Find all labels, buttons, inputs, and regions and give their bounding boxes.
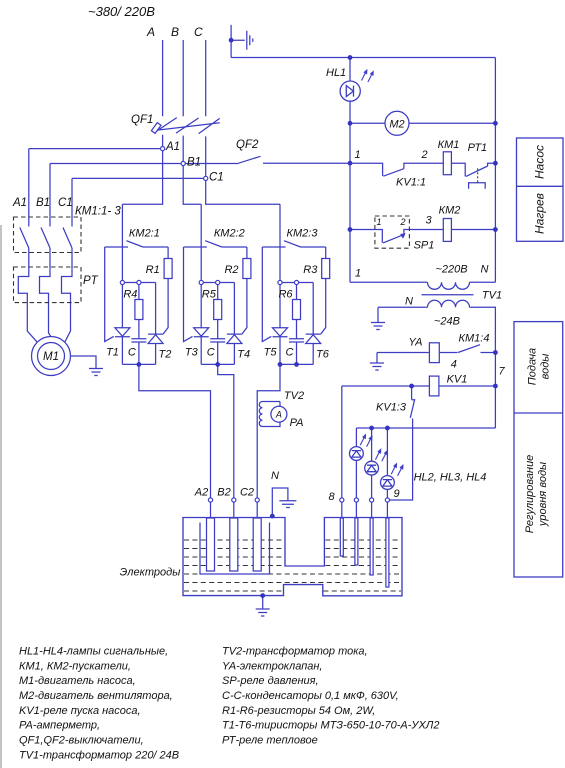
svg-text:КМ2:3: КМ2:3 xyxy=(287,228,319,240)
svg-text:Регулирование: Регулирование xyxy=(524,455,536,534)
svg-text:КМ2: КМ2 xyxy=(439,205,461,217)
svg-text:С: С xyxy=(286,347,294,359)
svg-text:T1-T6-тиристоры МТЗ-650-10-70-: T1-T6-тиристоры МТЗ-650-10-70-А-УХЛ2 xyxy=(222,720,439,732)
svg-text:РТ-реле тепловое: РТ-реле тепловое xyxy=(222,735,318,747)
svg-text:TV2-трансформатор тока,: TV2-трансформатор тока, xyxy=(222,646,368,658)
svg-text:Т3: Т3 xyxy=(185,347,199,359)
svg-text:8: 8 xyxy=(328,491,335,503)
svg-text:Т6: Т6 xyxy=(316,349,330,361)
svg-text:Т1: Т1 xyxy=(106,347,119,359)
svg-text:КМ1:4: КМ1:4 xyxy=(459,333,490,345)
svg-text:TV2: TV2 xyxy=(284,390,304,402)
svg-text:4: 4 xyxy=(451,359,457,371)
svg-text:1: 1 xyxy=(354,149,360,161)
svg-text:QF1: QF1 xyxy=(131,114,153,126)
svg-text:уровня воды: уровня воды xyxy=(537,462,549,527)
svg-text:A1: A1 xyxy=(165,141,180,153)
svg-text:R1: R1 xyxy=(146,264,160,276)
svg-text:YA-электроклапан,: YA-электроклапан, xyxy=(222,660,322,672)
svg-text:B2: B2 xyxy=(217,487,230,499)
svg-text:R5: R5 xyxy=(202,289,217,301)
svg-text:3: 3 xyxy=(425,215,432,227)
svg-text:С: С xyxy=(207,347,215,359)
svg-text:КМ1, КМ2-пускатели,: КМ1, КМ2-пускатели, xyxy=(19,660,131,672)
svg-text:QF2: QF2 xyxy=(236,139,259,151)
svg-text:SP-реле давления,: SP-реле давления, xyxy=(222,675,319,687)
svg-text:КМ1: КМ1 xyxy=(438,139,460,151)
svg-text:КМ1:1- 3: КМ1:1- 3 xyxy=(75,206,121,218)
svg-text:С: С xyxy=(128,347,136,359)
svg-text:A: A xyxy=(275,410,282,420)
svg-text:KV1:3: KV1:3 xyxy=(376,402,407,414)
svg-text:воды: воды xyxy=(540,354,552,380)
svg-text:9: 9 xyxy=(393,488,399,500)
svg-text:C2: C2 xyxy=(240,487,254,499)
svg-text:~380/ 220В: ~380/ 220В xyxy=(88,4,155,19)
svg-text:2: 2 xyxy=(420,149,427,161)
svg-text:М2: М2 xyxy=(389,118,404,130)
svg-text:N: N xyxy=(481,264,489,276)
svg-text:SP1: SP1 xyxy=(414,240,435,252)
svg-text:A: A xyxy=(146,25,155,39)
svg-text:B1: B1 xyxy=(187,157,201,169)
svg-text:QF1,QF2-выключатели,: QF1,QF2-выключатели, xyxy=(19,735,144,747)
svg-text:R4: R4 xyxy=(123,289,137,301)
svg-text:~220В: ~220В xyxy=(435,264,467,276)
svg-text:KV1-реле пуска насоса,: KV1-реле пуска насоса, xyxy=(19,705,141,717)
svg-text:YA: YA xyxy=(408,337,422,349)
svg-text:Нагрев: Нагрев xyxy=(533,193,547,234)
svg-text:1: 1 xyxy=(376,217,381,227)
svg-text:HL2, HL3, HL4: HL2, HL3, HL4 xyxy=(414,472,487,484)
svg-text:A1: A1 xyxy=(12,197,27,209)
svg-text:N: N xyxy=(271,470,279,482)
svg-text:KV1:1: KV1:1 xyxy=(396,177,426,189)
svg-text:PT: PT xyxy=(83,275,99,287)
svg-text:Насос: Насос xyxy=(533,145,547,179)
svg-text:C-C-конденсаторы 0,1 мкФ, 630V: C-C-конденсаторы 0,1 мкФ, 630V, xyxy=(222,690,399,702)
svg-text:Т5: Т5 xyxy=(264,347,278,359)
svg-text:TV1: TV1 xyxy=(482,290,502,302)
svg-text:R6: R6 xyxy=(278,289,293,301)
svg-text:KV1: KV1 xyxy=(447,374,468,386)
svg-text:М2-двигатель вентилятора,: М2-двигатель вентилятора, xyxy=(19,690,173,702)
svg-text:КМ2:1: КМ2:1 xyxy=(129,228,160,240)
svg-text:C1: C1 xyxy=(58,197,73,209)
svg-text:КМ2:2: КМ2:2 xyxy=(214,228,245,240)
svg-text:N: N xyxy=(405,296,413,308)
svg-text:HL1: HL1 xyxy=(326,67,346,79)
svg-text:PA-амперметр,: PA-амперметр, xyxy=(19,720,100,732)
svg-text:7: 7 xyxy=(498,366,505,378)
svg-text:Т2: Т2 xyxy=(158,349,171,361)
svg-text:B1: B1 xyxy=(36,197,50,209)
svg-text:C: C xyxy=(194,25,203,39)
svg-text:2: 2 xyxy=(399,217,405,227)
svg-text:~24В: ~24В xyxy=(434,316,460,328)
svg-text:РТ1: РТ1 xyxy=(468,142,488,154)
svg-text:HL1-HL4-лампы сигнальные,: HL1-HL4-лампы сигнальные, xyxy=(19,646,168,658)
svg-text:A2: A2 xyxy=(194,487,208,499)
svg-text:R3: R3 xyxy=(303,264,318,276)
svg-text:Подача: Подача xyxy=(527,348,539,385)
svg-text:Электроды: Электроды xyxy=(120,567,181,579)
svg-text:R1-R6-резисторы 54 Ом, 2W,: R1-R6-резисторы 54 Ом, 2W, xyxy=(222,705,375,717)
svg-text:1: 1 xyxy=(355,268,361,280)
svg-text:М1: М1 xyxy=(43,351,59,363)
svg-text:М1-двигатель насоса,: М1-двигатель насоса, xyxy=(19,675,136,687)
svg-text:TV1-трансформатор 220/ 24В: TV1-трансформатор 220/ 24В xyxy=(19,749,179,761)
svg-text:Т4: Т4 xyxy=(237,349,250,361)
svg-text:R2: R2 xyxy=(224,264,238,276)
svg-text:PA: PA xyxy=(290,417,304,429)
svg-text:C1: C1 xyxy=(209,172,224,184)
svg-text:B: B xyxy=(171,25,179,39)
